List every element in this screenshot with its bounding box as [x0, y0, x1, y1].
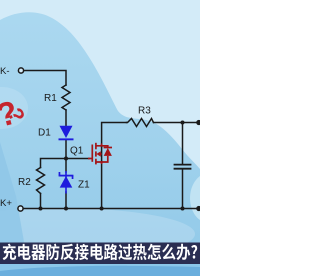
- junction dot capacitor top: [181, 121, 185, 125]
- caption bar: [0, 243, 200, 265]
- svg-text:R3: R3: [138, 106, 151, 117]
- bottom strip below caption: [0, 264, 200, 276]
- wire node A to Z1: [65, 159, 67, 173]
- wire node A to R2 top: [41, 159, 67, 168]
- Q1 body arrow: [96, 151, 100, 156]
- wire D1 to node A: [65, 140, 67, 159]
- diode D1: [59, 126, 74, 140]
- background light patch around question marks: [0, 87, 28, 129]
- terminal K-: [18, 68, 23, 73]
- output terminal top right: [196, 120, 201, 125]
- Q1 gate bar: [91, 145, 93, 162]
- Q1 body lead: [100, 153, 102, 155]
- Q1 gate lead red: [88, 158, 92, 160]
- wire Q1 source down to K+ rail: [101, 162, 103, 209]
- transistor Q1 (N-MOSFET, red): [88, 143, 112, 165]
- wire K- to R1 top: [24, 71, 66, 86]
- caption text 充电器防反接电路过热怎么办?: [3, 244, 198, 261]
- bottom strip lighter band: [0, 264, 200, 271]
- wire R2 to K+ rail: [40, 194, 42, 209]
- svg-text:K+: K+: [0, 198, 12, 209]
- Q1 body diode triangle: [104, 148, 112, 156]
- resistor R2: [37, 168, 45, 194]
- wire Q1 through line: [101, 146, 103, 162]
- wire R3 to output terminal: [154, 122, 200, 124]
- Q1 drain lead: [96, 144, 102, 146]
- svg-text:Q1: Q1: [70, 146, 84, 157]
- zener Z1: [59, 171, 74, 194]
- capacitor C plates: [175, 165, 191, 169]
- junction dot Q1 source on rail: [100, 207, 104, 211]
- svg-text:R2: R2: [18, 177, 31, 188]
- svg-text:R1: R1: [44, 93, 57, 104]
- junction dot R2 on rail: [39, 207, 43, 211]
- resistor R1: [62, 85, 70, 110]
- terminal K+: [18, 206, 23, 211]
- background light arc right edge: [190, 176, 200, 220]
- resistor R3: [127, 119, 154, 127]
- svg-text:K-: K-: [0, 66, 10, 77]
- svg-text:Z1: Z1: [78, 180, 90, 191]
- wire capacitor top lead: [182, 123, 184, 165]
- Q1 source lead: [96, 162, 102, 164]
- wire gate lead: [66, 158, 89, 160]
- wire R1 to D1: [65, 110, 67, 126]
- Q1 channel segments: [95, 143, 97, 150]
- junction dot capacitor bottom: [181, 207, 185, 211]
- wire Z1 to K+ rail: [65, 192, 67, 209]
- wire capacitor bottom lead: [182, 169, 184, 208]
- background deeper bottom-left band: [0, 142, 30, 276]
- background pale hill under circuit: [0, 208, 195, 260]
- Q1 body diode bar: [104, 147, 112, 149]
- junction dot Z1 on rail: [64, 207, 68, 211]
- svg-text:D1: D1: [38, 128, 51, 139]
- node A junction dot: [64, 157, 68, 161]
- background medium wave shape: [0, 12, 200, 276]
- wire Q1 drain up to R3: [102, 123, 127, 147]
- bottom K+ rail: [24, 208, 200, 210]
- output terminal bottom right: [196, 206, 201, 211]
- Q1 body diode lines: [102, 146, 108, 148]
